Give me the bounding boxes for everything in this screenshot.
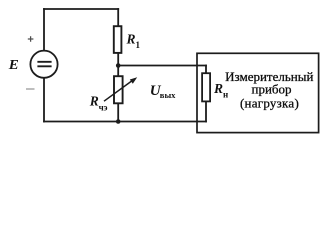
svg-text:1: 1 (136, 40, 141, 50)
voltage source E (30, 51, 57, 78)
svg-text:чэ: чэ (99, 102, 108, 112)
resistor R1 (114, 26, 122, 53)
node A (junction dot top) (116, 63, 121, 68)
wire middle (node A to Rн top lead) (118, 65, 206, 67)
svg-text:E: E (8, 57, 19, 72)
plus terminal mark (28, 36, 34, 41)
wire top (E+ to R1 top) (44, 8, 118, 10)
resistor Rчэ (variable sensing element) (114, 76, 123, 103)
wire Rн bottom lead (205, 101, 207, 121)
arrow of variable resistor Rчэ (104, 77, 137, 101)
resistor Rн (load) (202, 73, 210, 101)
wire Rчэ bottom lead (117, 103, 119, 121)
wire left lower (source to bottom corner) (43, 78, 45, 122)
svg-text:(нагрузка): (нагрузка) (240, 96, 299, 111)
minus terminal mark (26, 88, 35, 90)
wire R1 top lead (117, 9, 119, 26)
svg-text:R: R (126, 31, 136, 46)
wire bottom (bottom-left corner to Rн bottom lead) (44, 121, 206, 123)
svg-text:R: R (213, 81, 223, 96)
measuring instrument box (197, 53, 319, 132)
svg-text:R: R (89, 94, 99, 109)
svg-text:н: н (223, 89, 228, 99)
wire R1 bottom lead (117, 53, 119, 66)
wire Rчэ top lead (117, 66, 119, 77)
node B (junction dot bottom) (116, 119, 121, 124)
svg-text:вых: вых (160, 90, 176, 100)
wire left upper (top corner down to source) (43, 9, 45, 51)
wire Rн top lead (205, 66, 207, 74)
svg-text:прибор: прибор (251, 82, 291, 97)
